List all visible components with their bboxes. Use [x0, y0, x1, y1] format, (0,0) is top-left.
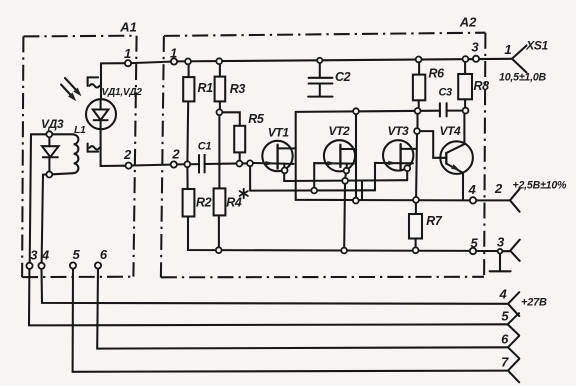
- svg-text:VT1: VT1: [268, 126, 290, 140]
- svg-text:R1: R1: [198, 81, 214, 95]
- svg-text:VT2: VT2: [329, 124, 351, 138]
- svg-text:VT3: VT3: [388, 124, 410, 138]
- svg-text:+27В: +27В: [521, 297, 547, 309]
- svg-text:VД1,VД2: VД1,VД2: [102, 87, 143, 98]
- svg-text:R3: R3: [230, 82, 246, 96]
- svg-text:4: 4: [41, 248, 50, 263]
- svg-text:5: 5: [471, 236, 479, 251]
- svg-text:7: 7: [501, 355, 509, 370]
- svg-text:R8: R8: [474, 79, 490, 93]
- svg-text:4: 4: [468, 182, 477, 197]
- svg-text:XS1: XS1: [525, 39, 548, 53]
- svg-text:1: 1: [504, 42, 511, 57]
- svg-text:С2: С2: [335, 70, 351, 84]
- svg-text:3: 3: [30, 248, 38, 263]
- svg-text:R2: R2: [196, 196, 212, 210]
- svg-text:1: 1: [170, 46, 177, 61]
- svg-text:А1: А1: [119, 20, 137, 35]
- svg-text:3: 3: [497, 235, 505, 250]
- svg-text:R7: R7: [426, 214, 443, 228]
- svg-text:С1: С1: [198, 141, 212, 153]
- svg-text:С3: С3: [439, 87, 453, 99]
- svg-text:VД3: VД3: [41, 117, 64, 131]
- svg-text:5: 5: [73, 247, 81, 262]
- svg-text:2: 2: [494, 181, 503, 196]
- svg-text:+2,5В±10%: +2,5В±10%: [513, 179, 568, 191]
- svg-text:L1: L1: [74, 124, 86, 136]
- svg-text:3: 3: [471, 40, 479, 55]
- svg-text:5: 5: [501, 309, 509, 324]
- svg-text:1: 1: [124, 46, 131, 61]
- svg-text:А2: А2: [459, 15, 477, 30]
- svg-text:R6: R6: [429, 67, 446, 81]
- svg-text:VT4: VT4: [440, 124, 462, 138]
- svg-text:2: 2: [171, 147, 180, 162]
- svg-text:6: 6: [501, 332, 509, 347]
- svg-text:4: 4: [499, 287, 508, 302]
- svg-text:10,5±1,0В: 10,5±1,0В: [499, 72, 547, 84]
- svg-text:2: 2: [123, 147, 132, 162]
- svg-text:6: 6: [100, 247, 108, 262]
- svg-text:R4: R4: [226, 196, 242, 210]
- svg-text:R5: R5: [248, 112, 265, 126]
